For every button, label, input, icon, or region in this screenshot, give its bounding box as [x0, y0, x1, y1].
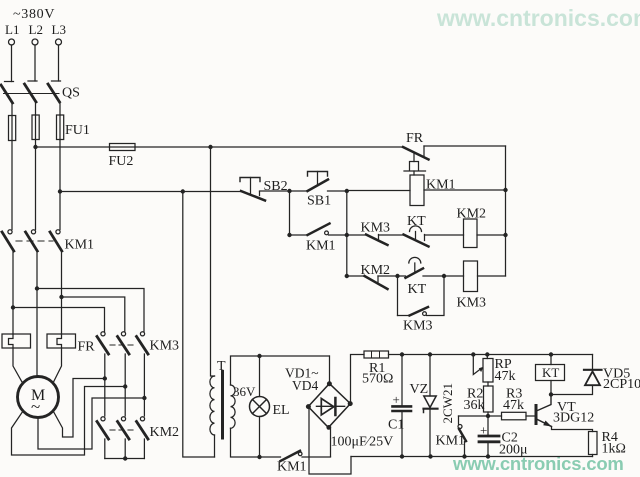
node rung B left — [287, 233, 291, 237]
capacitor C2 — [487, 416, 489, 435]
wire rung B right — [329, 234, 347, 236]
contactor KM1 main pole1 — [8, 230, 12, 234]
wire FR1 to motor — [13, 348, 22, 382]
transformer T core — [221, 372, 224, 439]
wire L3 drop to QS — [58, 45, 60, 81]
svg-text:KM1: KM1 — [277, 460, 307, 475]
svg-text:+: + — [393, 392, 400, 407]
bridge corner node top — [327, 381, 332, 386]
svg-text:1kΩ: 1kΩ — [602, 442, 626, 457]
contact KM1 aux right top lead — [458, 416, 460, 424]
fuse FU1 pole3 — [57, 115, 64, 140]
svg-text:C1: C1 — [388, 418, 404, 433]
node winding end U2 — [103, 376, 107, 380]
switch QS pole 3 — [52, 80, 61, 82]
wire KM3 pole3 down to KM2 — [143, 354, 145, 416]
node VZ top — [428, 352, 432, 356]
node mid rail rung C — [345, 233, 349, 237]
wire bottom rail right — [351, 456, 593, 458]
node rail rung C — [503, 233, 507, 237]
terminal L1 — [9, 39, 15, 45]
wire FR to KM1 coil — [413, 171, 415, 175]
svg-text:36V: 36V — [233, 384, 256, 399]
wire FU1 to KM1 pole2 — [35, 140, 37, 230]
contactor KM3 main pole1 — [101, 332, 105, 336]
svg-text:KM2: KM2 — [150, 425, 180, 440]
bridge inner diode — [321, 399, 334, 415]
coil KM2 — [464, 219, 478, 248]
node KT bottom — [549, 392, 553, 396]
wire QS to FU1 pole2 — [35, 102, 37, 115]
svg-text:KM3: KM3 — [457, 296, 487, 311]
transformer T primary winding — [210, 376, 215, 435]
wire KM1 pole1 down — [12, 251, 14, 334]
node RP wiper top — [471, 352, 475, 356]
lamp EL branch top — [259, 356, 261, 397]
wire top right to rail — [424, 145, 506, 147]
wire top rail right — [389, 354, 593, 356]
coil KM1 — [410, 175, 424, 206]
svg-text:200μ: 200μ — [499, 443, 528, 458]
wire rung C to KM2 coil — [425, 234, 464, 236]
node tap phase3 to KM3 — [59, 295, 63, 299]
svg-text:SB1: SB1 — [307, 194, 331, 209]
contactor KM1 main pole2 — [31, 230, 35, 234]
svg-text:2CP10: 2CP10 — [603, 377, 640, 392]
node winding end V2 — [123, 384, 127, 388]
wire secondary top — [231, 356, 330, 385]
wire KM2 pole1 to star bus — [104, 439, 106, 459]
wire R3 to base — [526, 415, 535, 417]
KM3 NC tick — [378, 235, 380, 241]
svg-text:FR: FR — [78, 340, 96, 355]
wire motor bottom-left to pole2 node — [12, 387, 126, 456]
button SB2 blade — [241, 191, 265, 201]
time contact KT2 umbrella — [409, 257, 421, 263]
wire primary feed down — [211, 147, 215, 376]
KM1 linkage dashes — [16, 240, 53, 242]
wire QS to FU1 pole1 — [11, 103, 13, 116]
wire L1 drop to QS — [11, 45, 13, 82]
svg-text:FR: FR — [406, 131, 424, 146]
wire KT bottom to VD5 — [551, 386, 593, 395]
KM3 aux contact circle — [423, 312, 427, 316]
wire KM2 pole3 to star bus — [143, 439, 145, 459]
wire motor bottom-center to pole3 node — [38, 398, 144, 449]
RP wiper arm — [473, 355, 481, 375]
wire KM3 pole1 down to KM2 — [104, 354, 106, 416]
star point bus — [105, 458, 145, 460]
node SB junction — [287, 189, 291, 193]
svg-text:KT: KT — [542, 365, 559, 380]
node lamp top — [257, 354, 261, 358]
node transformer primary tap — [208, 145, 212, 149]
wire KM2 pole2 to star bus — [124, 439, 126, 459]
wire DC minus from bridge left — [309, 407, 351, 475]
switch QS pole 1 — [5, 81, 14, 83]
svg-text:3DG12: 3DG12 — [553, 411, 594, 426]
wire FU1 to KM1 pole3 — [59, 140, 61, 230]
node lamp bottom — [257, 455, 261, 459]
SB2 plunger cap — [240, 178, 260, 182]
node C1 top — [400, 352, 404, 356]
VT emitter — [538, 420, 552, 427]
time contact KT1 blade — [404, 235, 429, 247]
svg-text:T: T — [217, 359, 226, 374]
wire SB2 to SB1 — [260, 190, 308, 192]
KM1 aux contact circle — [325, 231, 329, 235]
motor M — [18, 377, 59, 418]
fuse FU1 pole2 — [32, 115, 39, 140]
wire KM1 pole2 down — [36, 251, 38, 377]
potentiometer RP — [486, 355, 488, 359]
fuse FU1 pole1 — [9, 116, 16, 141]
svg-text:2CW21: 2CW21 — [440, 383, 455, 423]
VT emitter lead — [552, 427, 593, 432]
wire FR2 to motor — [54, 348, 62, 382]
svg-text:47k: 47k — [503, 398, 524, 413]
right rail — [505, 146, 507, 276]
KM3 linkage dashes — [110, 344, 137, 346]
resistor R3 — [502, 412, 527, 420]
contactor KM2 main pole3 — [140, 417, 144, 421]
wire bridge bottom vertical — [330, 427, 332, 457]
bridge corner node right — [348, 401, 353, 406]
svg-text:KM1: KM1 — [65, 238, 95, 253]
svg-text:+: + — [480, 423, 487, 438]
svg-text:FU2: FU2 — [109, 154, 134, 169]
thermal relay FR heater2 — [47, 334, 76, 348]
svg-text:KM3: KM3 — [361, 221, 391, 236]
svg-text:SB2: SB2 — [264, 179, 288, 194]
bridge top vertical — [329, 356, 331, 384]
wire tap y307 to KM3 pole1 — [13, 308, 105, 332]
wire KM1 pole3 down — [61, 251, 63, 334]
svg-text:L3: L3 — [52, 22, 66, 37]
relay coil KT box — [550, 355, 552, 365]
contact KM3 aux NO blade — [410, 307, 429, 316]
node VZ bottom — [428, 454, 432, 458]
svg-text:KM3: KM3 — [403, 319, 433, 334]
svg-text:FU1: FU1 — [65, 123, 90, 138]
svg-text:L1: L1 — [5, 22, 19, 37]
svg-text:570Ω: 570Ω — [362, 372, 393, 387]
svg-text:VZ: VZ — [410, 382, 429, 397]
node tap phase1 to KM3 — [11, 305, 15, 309]
node left rail tap for bottom section — [181, 189, 185, 193]
bridge corner node left — [306, 404, 311, 409]
node mid rail rung D — [345, 274, 349, 278]
svg-text:EL: EL — [273, 403, 290, 418]
KM1 aux right blade — [459, 429, 466, 441]
thermal relay FR heater1 — [2, 334, 31, 348]
svg-text:36k: 36k — [464, 398, 485, 413]
mid rail — [346, 191, 348, 276]
wire tap y297 to KM3 pole2 — [62, 297, 125, 332]
wire FU1 to KM1 pole1 — [11, 141, 13, 230]
node tap phase2 to KM3 — [35, 286, 39, 290]
coil KM3 — [464, 261, 478, 292]
contactor KM3 main pole2 — [121, 332, 125, 336]
contactor KM1 main pole3 — [56, 230, 60, 234]
wire bypass down — [397, 276, 399, 316]
transformer T secondary winding — [231, 385, 236, 428]
SB2 right contact tick — [259, 192, 261, 196]
thermal relay FR NC contact blade — [403, 147, 429, 160]
time contact KT1 umbrella — [410, 226, 422, 232]
node R2 bottom — [486, 414, 490, 418]
wire motor bottom-right to pole1 node — [54, 379, 105, 438]
wire R2 node to R3 — [488, 415, 502, 417]
node RP top — [485, 352, 489, 356]
terminal L3 — [56, 39, 62, 45]
FR contact stub — [413, 153, 415, 162]
wire DC plus from bridge right — [351, 355, 365, 405]
resistor R4 — [589, 432, 598, 455]
KM2 linkage dashes — [110, 429, 137, 431]
wire rung A left of coil — [347, 190, 410, 192]
svg-text:QS: QS — [62, 86, 80, 101]
svg-text:KM2: KM2 — [361, 263, 391, 278]
svg-text:KM2: KM2 — [457, 207, 487, 222]
switch QS pole 2 — [28, 80, 37, 82]
wire L2 drop to QS — [34, 45, 36, 81]
diode VD5 — [592, 355, 594, 370]
svg-text:KT: KT — [407, 214, 426, 229]
transistor VT base bar — [535, 406, 538, 424]
wire base node left — [459, 415, 489, 417]
node bridge bottom — [326, 425, 331, 430]
contact KM1 aux bottom blade — [281, 451, 301, 461]
contact KM1 aux NO blade — [308, 224, 330, 236]
node star point — [123, 456, 127, 460]
wire bypass left — [398, 315, 410, 317]
node C2 bottom — [486, 454, 490, 458]
node rung D right branch — [442, 274, 446, 278]
resistor R1 — [364, 351, 389, 358]
bridge inner diode wire — [316, 405, 344, 407]
contactor KM2 main pole2 — [121, 417, 125, 421]
lamp EL — [250, 397, 270, 417]
wire primary bottom — [214, 435, 216, 457]
wire rung D to KM3 coil — [423, 275, 464, 277]
contact KM3 NC blade rung C — [366, 235, 388, 246]
wire QS to FU1 pole3 — [59, 102, 61, 115]
node KM1 bottom — [462, 454, 466, 458]
node rung D branch — [395, 274, 399, 278]
wire KM1 to bridge bottom — [302, 456, 331, 458]
wire rung D left — [347, 275, 365, 277]
wire rung B left — [290, 234, 308, 236]
KM1 aux right circle — [458, 425, 462, 429]
wire rung C mid — [379, 234, 404, 236]
svg-text:KM1: KM1 — [426, 178, 456, 193]
wire SB junction down — [289, 191, 291, 235]
capacitor C1 — [401, 355, 403, 406]
FR thermal bump — [404, 162, 426, 172]
wire KM2 coil to rail — [477, 234, 506, 236]
contactor KM2 main pole1 — [101, 417, 105, 421]
wire KM3 coil to rail — [478, 275, 506, 277]
wire top control line y147 — [36, 146, 404, 148]
wire control line y191 — [60, 191, 241, 193]
SB1 plunger cap — [308, 172, 328, 177]
node on L2 feeding FU2 line — [33, 145, 37, 149]
SB2 plunger stem — [250, 178, 252, 195]
node rail rung A — [503, 188, 507, 192]
svg-text:KM3: KM3 — [150, 339, 180, 354]
wire rung C left — [347, 234, 366, 236]
svg-text:~380V: ~380V — [13, 7, 55, 22]
wire tap y288 to KM3 pole3 — [37, 289, 144, 332]
fuse FU2 — [110, 144, 136, 151]
KM2 NC tick — [377, 276, 379, 282]
node KT top — [549, 352, 553, 356]
QS linkage bar — [4, 93, 60, 95]
SB1 plunger stem — [317, 172, 319, 186]
terminal L2 — [32, 39, 38, 45]
wire KM3 pole2 down to KM2 — [124, 354, 126, 416]
VT collector — [538, 395, 552, 411]
svg-text:www.cntronics.com: www.cntronics.com — [436, 5, 640, 31]
svg-text:100μF⁄25V: 100μF⁄25V — [331, 435, 394, 450]
svg-text:KT: KT — [408, 282, 427, 297]
KT1 right tick — [424, 235, 426, 241]
svg-text:KM1: KM1 — [436, 434, 466, 449]
lamp EL branch bottom — [259, 417, 261, 458]
wire SB1 to coil line — [328, 190, 347, 192]
wire rung A right of coil — [424, 189, 506, 191]
svg-text:VD4: VD4 — [292, 378, 318, 393]
node rung A rail2 — [345, 189, 349, 193]
button SB1 blade — [308, 180, 329, 192]
node winding end W2 — [142, 396, 146, 400]
contactor KM3 main pole3 — [140, 332, 144, 336]
svg-text:47k: 47k — [495, 369, 516, 384]
wire secondary bottom — [231, 428, 281, 457]
KM1 aux right bottom lead — [464, 442, 466, 457]
resistor R2 — [484, 386, 494, 412]
wire bypass right — [427, 276, 445, 316]
node on L3 feeding control line y191 — [58, 189, 62, 193]
KM1 aux bottom circle — [298, 452, 302, 456]
svg-text:~: ~ — [31, 397, 40, 416]
contact KM2 NC blade rung D — [365, 276, 388, 289]
wire rung D mid — [378, 275, 406, 277]
time contact KT2 blade — [406, 268, 424, 277]
node C1 bottom — [400, 454, 404, 458]
svg-text:L2: L2 — [29, 22, 43, 37]
svg-text:KM1: KM1 — [306, 239, 336, 254]
wire FR right up — [423, 146, 425, 158]
zener diode VZ — [429, 355, 431, 397]
wire left rail down — [183, 192, 215, 458]
rectifier bridge VD1-VD4 diamond — [308, 384, 350, 428]
